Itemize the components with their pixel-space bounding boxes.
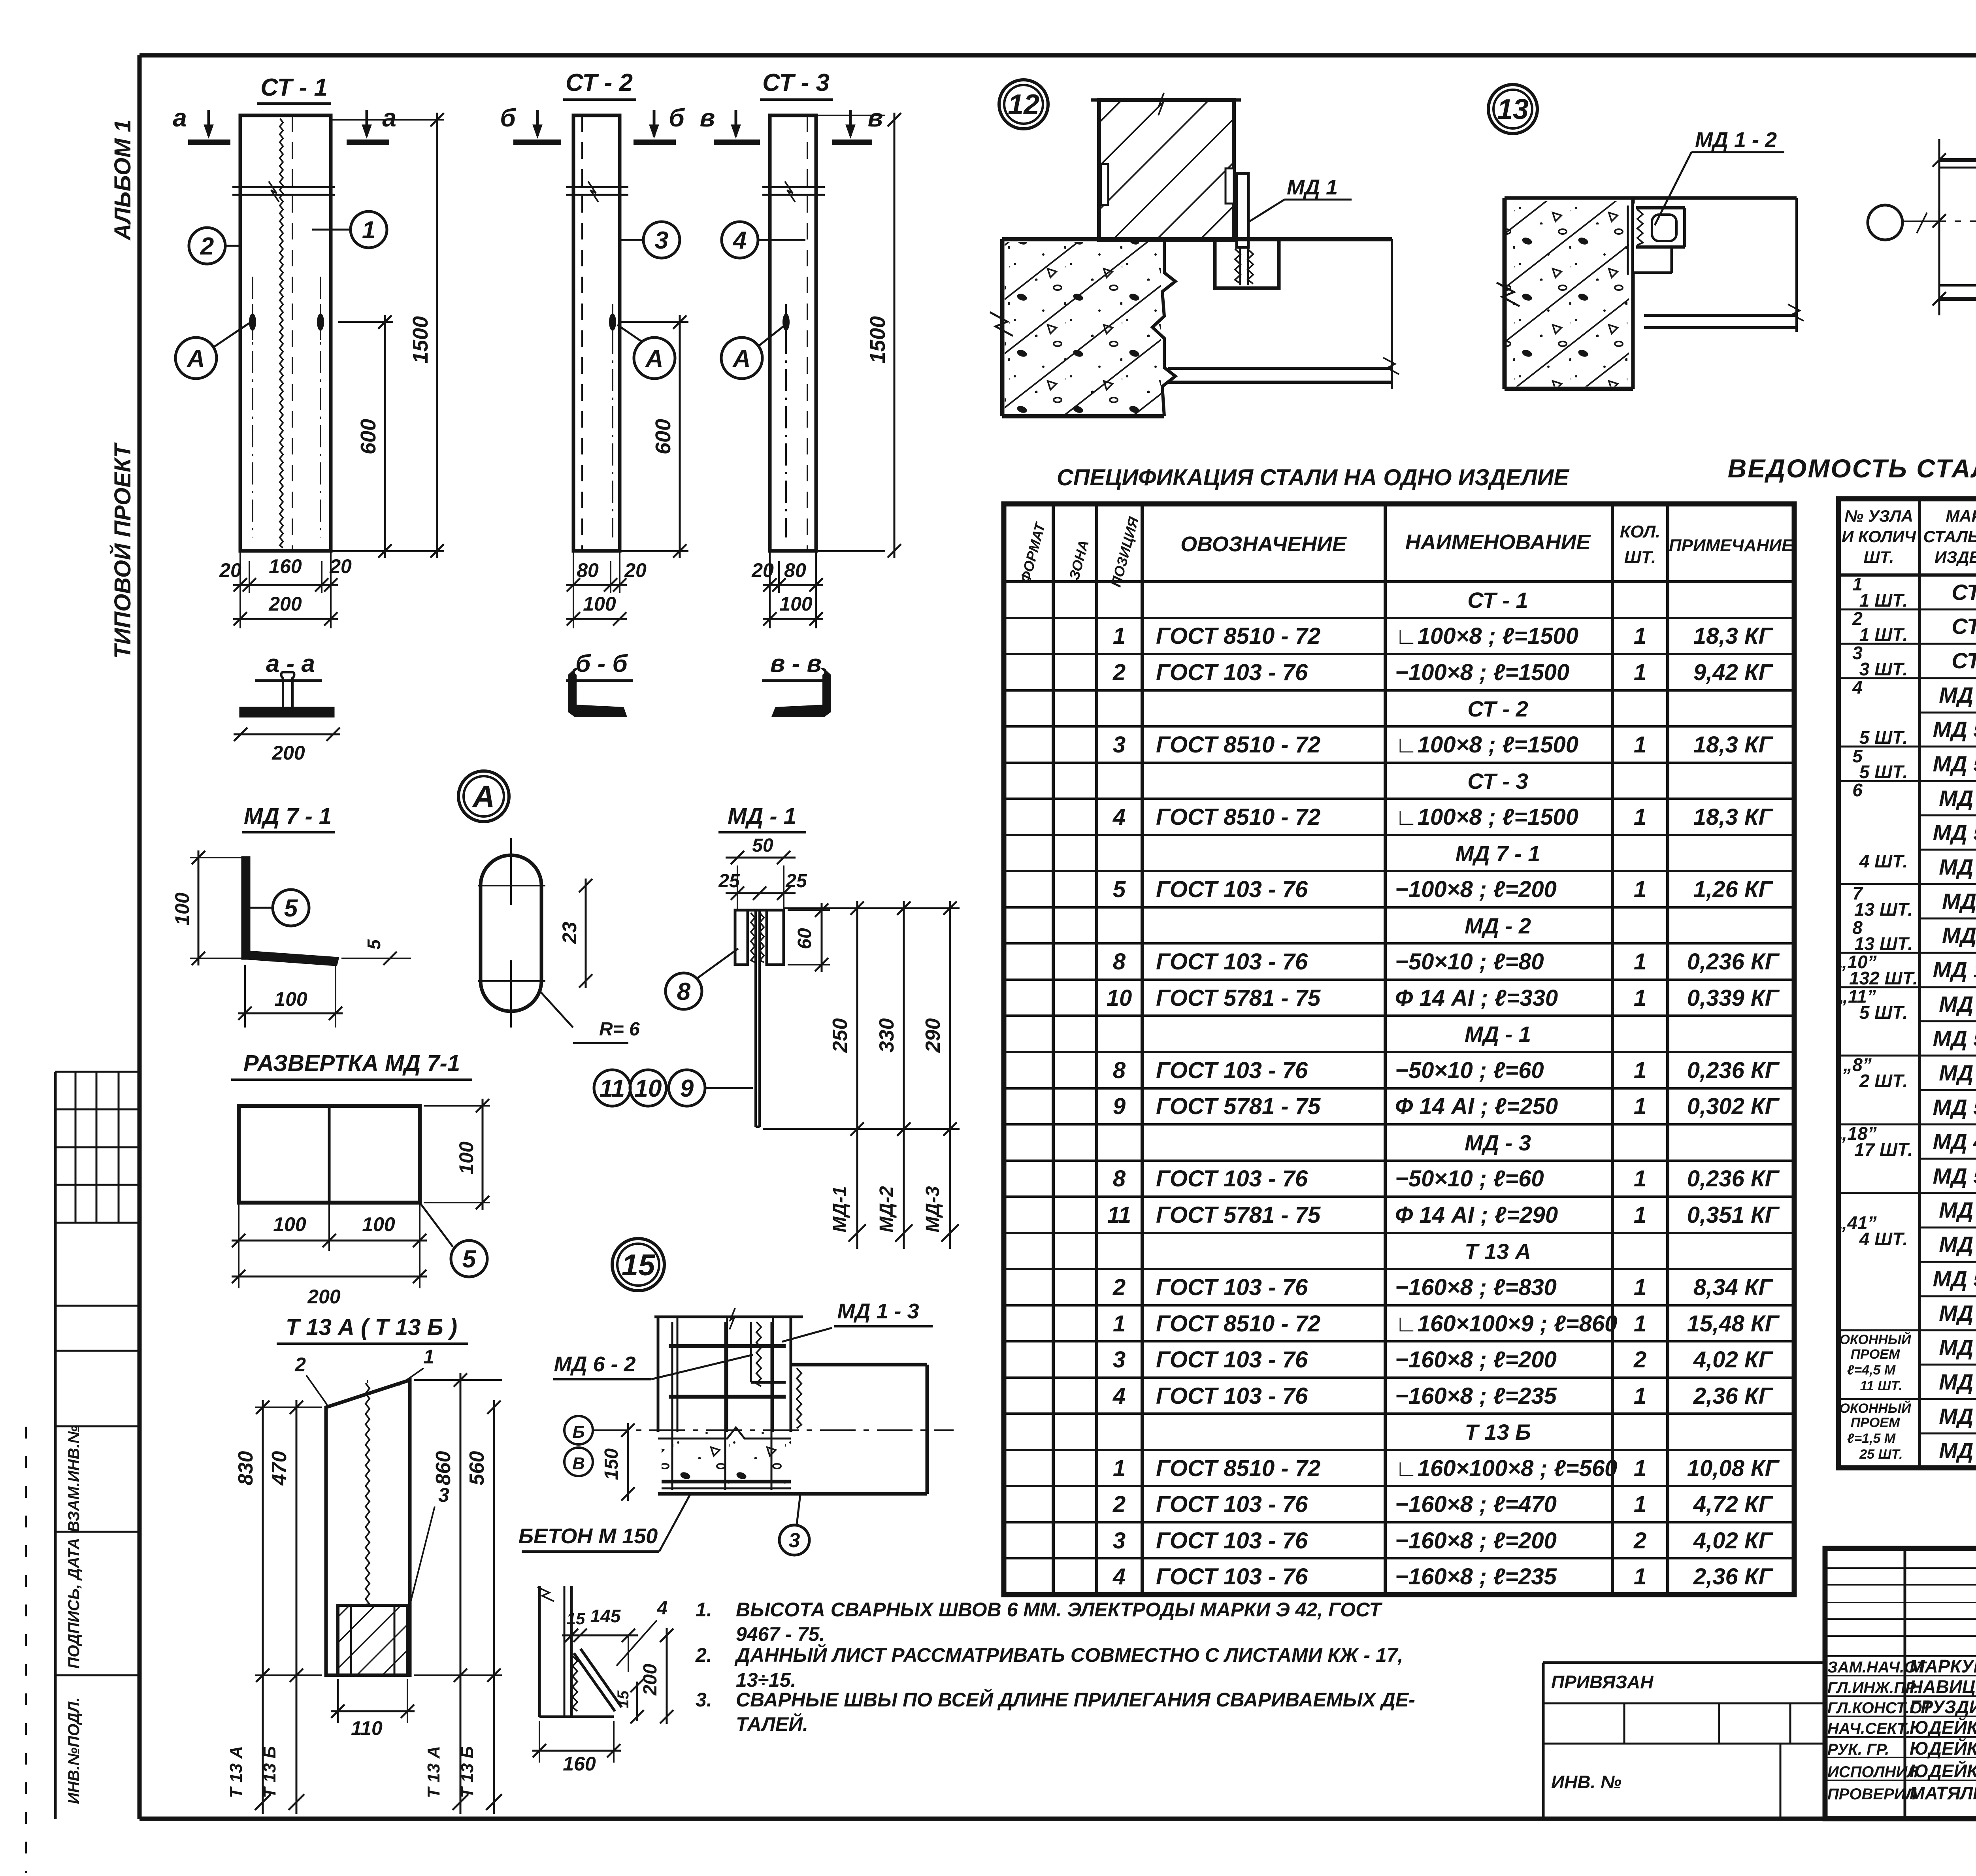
svg-text:СТ 3: СТ 3 [1951,614,1976,639]
svg-text:80: 80 [577,559,599,581]
svg-text:ВЕДОМОСТЬ СТАЛЬНЫХ ИЗДЕЛИЙ: ВЕДОМОСТЬ СТАЛЬНЫХ ИЗДЕЛИЙ НА ОДИН УЗЕЛ [1728,453,1976,483]
svg-text:МД - 1: МД - 1 [1942,923,1976,948]
svg-text:МД 5-10: МД 5-10 [1933,717,1976,742]
svg-text:СТ - 1: СТ - 1 [260,74,328,101]
svg-text:1: 1 [1634,1491,1646,1517]
svg-text:150: 150 [601,1448,622,1480]
svg-text:2: 2 [1112,660,1126,685]
svg-text:МД-3: МД-3 [922,1186,943,1233]
svg-text:ИЗДЕЛИЯ: ИЗДЕЛИЯ [1935,548,1976,566]
svg-text:СТ - 2: СТ - 2 [1467,696,1528,721]
svg-text:МД 1: МД 1 [1287,175,1338,199]
svg-text:18,3 КГ: 18,3 КГ [1693,804,1774,830]
svg-text:ИНВ.№ПОДЛ.: ИНВ.№ПОДЛ. [65,1697,83,1804]
svg-text:БЕТОН М 150: БЕТОН М 150 [519,1524,658,1548]
svg-text:−50×10 ; ℓ=80: −50×10 ; ℓ=80 [1395,949,1544,975]
svg-text:1: 1 [1113,1456,1126,1481]
svg-text:15: 15 [622,1248,656,1282]
svg-text:ГЛ.ИНЖ.ПР.: ГЛ.ИНЖ.ПР. [1827,1679,1918,1697]
svg-text:МД 3-1: МД 3-1 [1939,1232,1976,1257]
svg-text:470: 470 [268,1451,291,1486]
svg-text:5: 5 [462,1246,477,1273]
svg-text:Т 13 А ( Т 13 Б ): Т 13 А ( Т 13 Б ) [286,1314,457,1340]
svg-text:МАТЯЛИС: МАТЯЛИС [1910,1783,1976,1803]
svg-text:б: б [500,104,517,132]
svg-text:10,08 КГ: 10,08 КГ [1687,1456,1780,1481]
svg-text:И КОЛИЧ: И КОЛИЧ [1842,527,1916,546]
svg-text:1: 1 [1634,1311,1646,1337]
svg-text:−100×8 ; ℓ=200: −100×8 ; ℓ=200 [1395,877,1557,902]
svg-text:200: 200 [268,593,302,615]
svg-text:600: 600 [651,419,675,454]
svg-text:МД-2: МД-2 [876,1186,897,1233]
svg-text:10: 10 [635,1075,662,1102]
svg-text:МД 6 - 2: МД 6 - 2 [554,1352,635,1376]
svg-text:ОКОННЫЙ: ОКОННЫЙ [1840,1332,1912,1347]
svg-text:А: А [732,345,751,372]
svg-text:4 ШТ.: 4 ШТ. [1859,851,1908,871]
svg-text:160: 160 [269,555,302,577]
svg-text:8: 8 [1113,949,1126,975]
svg-text:№ УЗЛА: № УЗЛА [1844,507,1913,525]
svg-text:МД 1 - 2: МД 1 - 2 [1695,128,1777,152]
svg-text:4: 4 [1112,804,1126,830]
svg-text:НАИМЕНОВАНИЕ: НАИМЕНОВАНИЕ [1405,530,1591,554]
svg-text:1: 1 [1113,1311,1126,1337]
svg-text:0,236 КГ: 0,236 КГ [1687,1058,1780,1083]
svg-text:250: 250 [829,1018,852,1053]
svg-text:110: 110 [351,1717,383,1739]
svg-text:1: 1 [362,217,375,244]
svg-text:ГОСТ 103 - 76: ГОСТ 103 - 76 [1156,1528,1308,1554]
svg-text:ШТ.: ШТ. [1864,548,1894,566]
svg-text:МД 5-17: МД 5-17 [1933,751,1976,776]
svg-text:3: 3 [1113,1347,1126,1373]
svg-text:−160×8 ; ℓ=830: −160×8 ; ℓ=830 [1395,1275,1557,1300]
svg-text:ГОСТ 5781 - 75: ГОСТ 5781 - 75 [1156,985,1321,1011]
svg-text:60: 60 [794,928,815,949]
svg-text:0,236 КГ: 0,236 КГ [1687,949,1780,975]
svg-text:ОВОЗНАЧЕНИЕ: ОВОЗНАЧЕНИЕ [1180,532,1347,556]
svg-text:18,3 КГ: 18,3 КГ [1693,732,1774,758]
svg-text:13÷15.: 13÷15. [736,1669,796,1691]
svg-text:1: 1 [423,1346,434,1368]
svg-text:2,36 КГ: 2,36 КГ [1693,1383,1774,1409]
svg-text:3.: 3. [696,1689,712,1711]
svg-text:3 ШТ.: 3 ШТ. [1859,659,1908,679]
svg-text:2.: 2. [695,1644,712,1666]
svg-text:А: А [472,779,495,814]
svg-text:МД 4-2: МД 4-2 [1939,1438,1976,1463]
svg-text:Б: Б [572,1422,585,1442]
svg-text:МД 2-2: МД 2-2 [1939,786,1976,811]
svg-text:15: 15 [615,1690,632,1708]
svg-text:СВАРНЫЕ ШВЫ ПО ВСЕЙ ДЛИНЕ: СВАРНЫЕ ШВЫ ПО ВСЕЙ ДЛИНЕ ПРИЛЕГАНИЯ СВА… [736,1688,1415,1711]
svg-text:1: 1 [1634,1383,1646,1409]
svg-text:15,48 КГ: 15,48 КГ [1687,1311,1780,1337]
svg-text:МД 1-16: МД 1-16 [1933,957,1976,982]
svg-text:1: 1 [1634,623,1646,649]
svg-text:ГОСТ 103 - 76: ГОСТ 103 - 76 [1156,1383,1308,1409]
svg-text:ОКОННЫЙ: ОКОННЫЙ [1840,1401,1912,1416]
svg-text:20: 20 [624,559,647,581]
svg-text:5 ШТ.: 5 ШТ. [1859,727,1908,748]
svg-text:1: 1 [1634,877,1646,902]
svg-text:Ф 14 АІ ; ℓ=250: Ф 14 АІ ; ℓ=250 [1395,1094,1558,1119]
svg-text:МД 5-10: МД 5-10 [1933,1163,1976,1188]
svg-text:1: 1 [1634,1564,1646,1589]
svg-text:ВЗАМ.ИНВ.№: ВЗАМ.ИНВ.№ [65,1425,83,1533]
svg-text:ГОСТ 5781 - 75: ГОСТ 5781 - 75 [1156,1094,1321,1119]
svg-text:4: 4 [657,1598,668,1619]
svg-text:ГОСТ 8510 - 72: ГОСТ 8510 - 72 [1156,1456,1320,1481]
svg-text:СПЕЦИФИКАЦИЯ СТАЛИ НА ОДНО: СПЕЦИФИКАЦИЯ СТАЛИ НА ОДНО ИЗДЕЛИЕ [1057,465,1570,490]
svg-text:4,02 КГ: 4,02 КГ [1693,1528,1774,1554]
svg-text:∟160×100×9 ; ℓ=860: ∟160×100×9 ; ℓ=860 [1395,1311,1617,1337]
svg-text:НАЧ.СЕКТ.: НАЧ.СЕКТ. [1827,1720,1910,1737]
svg-text:в: в [700,104,715,132]
svg-text:КОЛ.: КОЛ. [1620,522,1661,541]
svg-text:ГОСТ 103 - 76: ГОСТ 103 - 76 [1156,660,1308,685]
svg-text:АЛЬБОМ 1: АЛЬБОМ 1 [110,119,136,241]
svg-text:2 ШТ.: 2 ШТ. [1859,1071,1908,1091]
svg-text:5: 5 [364,939,384,950]
svg-text:МД 5-10: МД 5-10 [1933,820,1976,845]
svg-text:1: 1 [1634,1058,1646,1083]
svg-text:Ф 14 АІ ; ℓ=290: Ф 14 АІ ; ℓ=290 [1395,1202,1558,1228]
svg-text:ГОСТ 103 - 76: ГОСТ 103 - 76 [1156,877,1308,902]
svg-text:3: 3 [655,227,668,254]
svg-text:А: А [187,345,205,372]
svg-text:ГОСТ 8510 - 72: ГОСТ 8510 - 72 [1156,804,1320,830]
svg-text:13 ШТ.: 13 ШТ. [1854,933,1913,954]
svg-text:В: В [572,1454,585,1473]
svg-text:МД - 1: МД - 1 [1942,889,1976,914]
svg-text:МД-1: МД-1 [830,1186,850,1232]
svg-text:ЮДЕЙКЕНЕ: ЮДЕЙКЕНЕ [1910,1738,1976,1759]
svg-text:ИНВ. №: ИНВ. № [1551,1772,1622,1792]
svg-text:ЮДЕЙКЕНЕ: ЮДЕЙКЕНЕ [1910,1717,1976,1738]
svg-text:СТ - 1: СТ - 1 [1467,588,1528,613]
svg-text:МД 7 - 1: МД 7 - 1 [244,803,332,829]
svg-text:Т 13 А: Т 13 А [1465,1239,1531,1264]
svg-text:МД 2-2: МД 2-2 [1939,1060,1976,1085]
svg-text:ГОСТ 103 - 76: ГОСТ 103 - 76 [1156,1275,1308,1300]
svg-text:МД 1-6: МД 1-6 [1939,854,1976,879]
svg-text:∟100×8 ; ℓ=1500: ∟100×8 ; ℓ=1500 [1395,804,1578,830]
svg-text:РАЗВЕРТКА МД 7-1: РАЗВЕРТКА МД 7-1 [243,1050,460,1076]
svg-text:11: 11 [1107,1202,1131,1228]
svg-text:9: 9 [1113,1094,1126,1119]
svg-text:200: 200 [272,742,305,764]
svg-text:в: в [868,104,883,132]
svg-text:160: 160 [563,1753,596,1775]
svg-text:8: 8 [677,978,691,1005]
svg-text:9: 9 [680,1075,694,1102]
svg-text:3: 3 [789,1529,800,1552]
svg-text:−160×8 ; ℓ=470: −160×8 ; ℓ=470 [1395,1491,1557,1517]
svg-text:∟100×8 ; ℓ=1500: ∟100×8 ; ℓ=1500 [1395,623,1578,649]
svg-text:ГОСТ 103 - 76: ГОСТ 103 - 76 [1156,949,1308,975]
svg-text:НАВИЦКАС: НАВИЦКАС [1910,1676,1976,1697]
svg-text:ПОДПИСЬ, ДАТА: ПОДПИСЬ, ДАТА [65,1538,83,1669]
svg-text:0,339 КГ: 0,339 КГ [1687,985,1780,1011]
svg-text:Т 13 А: Т 13 А [226,1746,246,1798]
svg-text:ПРИМЕЧАНИЕ: ПРИМЕЧАНИЕ [1669,536,1794,555]
svg-text:100: 100 [779,593,813,615]
svg-text:Т 13 Б: Т 13 Б [458,1746,477,1798]
svg-text:20: 20 [329,555,352,577]
svg-text:ДАННЫЙ ЛИСТ РАССМАТРИВАТЬ С: ДАННЫЙ ЛИСТ РАССМАТРИВАТЬ СОВМЕСТНО С ЛИ… [734,1644,1403,1666]
svg-text:−100×8 ; ℓ=1500: −100×8 ; ℓ=1500 [1395,660,1569,685]
svg-text:−50×10 ; ℓ=60: −50×10 ; ℓ=60 [1395,1166,1544,1192]
svg-text:ПРИВЯЗАН: ПРИВЯЗАН [1551,1672,1654,1692]
svg-text:1,26 КГ: 1,26 КГ [1693,877,1774,902]
svg-text:ПРОЕМ: ПРОЕМ [1851,1415,1900,1430]
svg-text:2: 2 [1112,1491,1126,1517]
svg-text:1.: 1. [696,1599,712,1621]
svg-text:МД 2-2: МД 2-2 [1939,1197,1976,1222]
svg-text:1: 1 [1634,660,1646,685]
svg-text:СТ 2: СТ 2 [1951,580,1976,605]
svg-text:23: 23 [558,922,581,944]
svg-text:5: 5 [1113,877,1126,902]
svg-text:9,42 КГ: 9,42 КГ [1693,660,1774,685]
svg-text:МД 4-3: МД 4-3 [1939,992,1976,1016]
svg-text:МД 5-10: МД 5-10 [1933,1266,1976,1291]
svg-text:1: 1 [1634,1202,1646,1228]
svg-text:13 ШТ.: 13 ШТ. [1854,899,1913,920]
svg-text:ГОСТ 103 - 76: ГОСТ 103 - 76 [1156,1564,1308,1589]
svg-text:a: a [382,104,396,132]
svg-text:3: 3 [438,1484,449,1506]
svg-text:ℓ=4,5 М: ℓ=4,5 М [1847,1363,1896,1378]
svg-text:1: 1 [1634,985,1646,1011]
svg-text:1: 1 [1113,623,1126,649]
svg-text:ГОСТ 103 - 76: ГОСТ 103 - 76 [1156,1058,1308,1083]
svg-text:ПРОВЕРИЛ: ПРОВЕРИЛ [1827,1785,1917,1803]
svg-text:3: 3 [1113,732,1126,758]
svg-text:МД 5-10: МД 5-10 [1933,1026,1976,1051]
svg-text:10: 10 [1107,985,1132,1011]
svg-text:ГОСТ 8510 - 72: ГОСТ 8510 - 72 [1156,623,1320,649]
svg-text:20: 20 [751,559,774,581]
svg-text:МАРКА: МАРКА [1946,507,1976,525]
svg-text:А: А [645,345,664,372]
svg-text:−160×8 ; ℓ=235: −160×8 ; ℓ=235 [1395,1564,1557,1589]
svg-text:17 ШТ.: 17 ШТ. [1854,1139,1913,1160]
svg-text:330: 330 [875,1018,898,1053]
svg-text:СТ - 3: СТ - 3 [1467,769,1528,794]
svg-text:ГОСТ 103 - 76: ГОСТ 103 - 76 [1156,1491,1308,1517]
svg-text:СТ - 2: СТ - 2 [566,69,633,96]
svg-text:25 ШТ.: 25 ШТ. [1859,1447,1902,1462]
svg-text:80: 80 [784,559,806,581]
svg-text:100: 100 [583,593,616,615]
svg-text:РУК. ГР.: РУК. ГР. [1827,1741,1889,1758]
svg-text:в - в: в - в [770,650,822,677]
svg-text:3: 3 [1113,1528,1126,1554]
svg-text:СТАЛЬНОГО: СТАЛЬНОГО [1923,527,1976,546]
svg-text:ТИПОВОЙ ПРОЕКТ: ТИПОВОЙ ПРОЕКТ [109,442,136,659]
svg-text:−160×8 ; ℓ=200: −160×8 ; ℓ=200 [1395,1347,1557,1373]
svg-text:Т 13 Б: Т 13 Б [1465,1420,1531,1444]
svg-text:ГРУЗДИС: ГРУЗДИС [1910,1697,1976,1717]
svg-text:1: 1 [1634,1166,1646,1192]
svg-text:МД 7 - 1: МД 7 - 1 [1456,841,1540,866]
svg-text:1500: 1500 [866,316,890,364]
svg-text:МД 6-2: МД 6-2 [1939,1301,1976,1325]
svg-text:8: 8 [1113,1058,1126,1083]
svg-text:МД - 1: МД - 1 [728,803,796,829]
svg-text:СТ 1: СТ 1 [1951,648,1976,673]
svg-text:МД 7-1: МД 7-1 [1939,683,1976,707]
svg-text:1: 1 [1634,1275,1646,1300]
svg-text:100: 100 [455,1141,477,1175]
svg-text:4: 4 [1112,1564,1126,1589]
svg-text:560: 560 [466,1451,488,1486]
svg-text:0,351 КГ: 0,351 КГ [1687,1202,1780,1228]
svg-text:2,36 КГ: 2,36 КГ [1693,1564,1774,1589]
svg-text:100: 100 [171,892,193,926]
svg-text:1: 1 [1634,1094,1646,1119]
svg-text:1 ШТ.: 1 ШТ. [1859,590,1908,611]
svg-text:1: 1 [1634,1456,1646,1481]
svg-text:15: 15 [567,1609,585,1628]
svg-text:МД - 2: МД - 2 [1465,913,1531,938]
svg-text:1 ШТ.: 1 ШТ. [1859,624,1908,645]
svg-text:1500: 1500 [409,316,432,364]
svg-text:5: 5 [284,895,298,922]
svg-text:ШТ.: ШТ. [1624,548,1656,567]
svg-text:860: 860 [432,1451,455,1486]
svg-text:290: 290 [922,1018,945,1053]
svg-text:5 ШТ.: 5 ШТ. [1859,1002,1908,1023]
svg-text:−160×8 ; ℓ=200: −160×8 ; ℓ=200 [1395,1528,1557,1554]
svg-text:2: 2 [1633,1347,1646,1373]
svg-text:МД - 1: МД - 1 [1465,1022,1531,1046]
svg-text:Т 13 А: Т 13 А [424,1746,443,1798]
svg-text:ℓ=1,5 М: ℓ=1,5 М [1847,1431,1896,1446]
svg-text:12: 12 [1008,89,1039,121]
svg-text:−50×10 ; ℓ=60: −50×10 ; ℓ=60 [1395,1058,1544,1083]
svg-text:100: 100 [362,1213,395,1235]
svg-text:б - б: б - б [575,650,628,677]
svg-text:600: 600 [356,419,380,454]
svg-text:2: 2 [294,1354,306,1376]
svg-text:∟100×8 ; ℓ=1500: ∟100×8 ; ℓ=1500 [1395,732,1578,758]
svg-text:4: 4 [732,227,747,254]
svg-text:R= 6: R= 6 [599,1019,640,1040]
svg-text:СТ - 3: СТ - 3 [762,69,830,96]
svg-text:2: 2 [200,233,214,260]
svg-text:∟160×100×8 ; ℓ=560: ∟160×100×8 ; ℓ=560 [1395,1456,1617,1481]
svg-text:132 ШТ.: 132 ШТ. [1849,968,1918,988]
svg-text:18,3 КГ: 18,3 КГ [1693,623,1774,649]
svg-text:ПРОЕМ: ПРОЕМ [1851,1347,1900,1362]
svg-text:ГОСТ 8510 - 72: ГОСТ 8510 - 72 [1156,1311,1320,1337]
svg-text:9467 - 75.: 9467 - 75. [736,1623,825,1645]
svg-text:Ф 14 АІ ; ℓ=330: Ф 14 АІ ; ℓ=330 [1395,985,1558,1011]
svg-text:8: 8 [1113,1166,1126,1192]
svg-text:0,236 КГ: 0,236 КГ [1687,1166,1780,1192]
svg-text:13: 13 [1497,94,1529,125]
svg-text:2: 2 [1112,1275,1126,1300]
svg-text:4,72 КГ: 4,72 КГ [1693,1491,1774,1517]
svg-text:ГОСТ 8510 - 72: ГОСТ 8510 - 72 [1156,732,1320,758]
svg-text:МД 4-2: МД 4-2 [1939,1369,1976,1394]
svg-text:МД 1 - 3: МД 1 - 3 [837,1299,919,1323]
svg-text:20: 20 [219,559,241,581]
svg-text:−160×8 ; ℓ=235: −160×8 ; ℓ=235 [1395,1383,1557,1409]
svg-text:6: 6 [1852,780,1863,800]
svg-text:100: 100 [273,1213,306,1235]
svg-text:100: 100 [274,988,307,1010]
svg-text:2: 2 [1633,1528,1646,1554]
svg-text:11: 11 [600,1075,625,1102]
svg-text:200: 200 [307,1286,341,1308]
svg-text:МД - 3: МД - 3 [1465,1130,1531,1155]
svg-text:4: 4 [1112,1383,1126,1409]
svg-text:ИСПОЛНИЛ: ИСПОЛНИЛ [1827,1763,1919,1781]
svg-text:1: 1 [1634,949,1646,975]
svg-text:МД 4-1: МД 4-1 [1939,1404,1976,1429]
svg-text:б: б [669,104,685,132]
svg-text:МД 5-10: МД 5-10 [1933,1095,1976,1120]
svg-text:МАРКУНАС: МАРКУНАС [1910,1656,1976,1676]
svg-text:1: 1 [1634,732,1646,758]
svg-text:50: 50 [752,835,773,856]
svg-text:ВЫСОТА СВАРНЫХ ШВОВ 6 ММ.: ВЫСОТА СВАРНЫХ ШВОВ 6 ММ. ЭЛЕКТРОДЫ МАРК… [736,1599,1383,1621]
svg-text:ЮДЕЙКЕНЕ: ЮДЕЙКЕНЕ [1910,1761,1976,1781]
svg-text:ГОСТ 5781 - 75: ГОСТ 5781 - 75 [1156,1202,1321,1228]
svg-text:ГОСТ 103 - 76: ГОСТ 103 - 76 [1156,1166,1308,1192]
svg-text:145: 145 [590,1606,621,1626]
svg-text:4: 4 [1852,677,1863,698]
svg-text:4 ШТ.: 4 ШТ. [1859,1229,1908,1249]
svg-text:Т 13 Б: Т 13 Б [260,1746,279,1798]
svg-text:830: 830 [234,1451,257,1486]
svg-text:МД 4-1: МД 4-1 [1939,1335,1976,1360]
svg-text:8,34 КГ: 8,34 КГ [1693,1275,1774,1300]
svg-text:ТАЛЕЙ.: ТАЛЕЙ. [736,1713,808,1735]
svg-text:11 ШТ.: 11 ШТ. [1860,1378,1902,1393]
svg-text:0,302 КГ: 0,302 КГ [1687,1094,1780,1119]
svg-text:МД 4-19: МД 4-19 [1933,1129,1976,1154]
svg-text:a: a [173,104,187,132]
svg-text:4,02 КГ: 4,02 КГ [1693,1347,1774,1373]
svg-text:ГОСТ 103 - 76: ГОСТ 103 - 76 [1156,1347,1308,1373]
svg-text:1: 1 [1634,804,1646,830]
svg-text:5 ШТ.: 5 ШТ. [1859,762,1908,782]
